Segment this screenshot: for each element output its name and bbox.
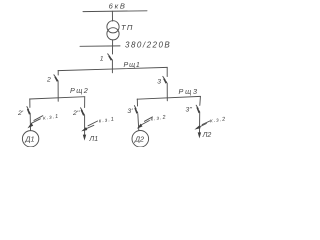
switch 2	[54, 75, 59, 82]
wire transformer to LV line and down to switch 1	[112, 40, 114, 54]
wire switch 2' to motor Д1	[29, 114, 31, 131]
wire switch 3'' to feeder arrow Л2	[199, 113, 201, 133]
short-circuit arrow к.з.2 at Л2 branch	[194, 121, 209, 130]
svg-text:3'': 3''	[186, 107, 193, 114]
svg-text:ТП: ТП	[121, 23, 134, 32]
label к.з.2	[150, 114, 167, 122]
svg-text:3: 3	[157, 78, 161, 85]
wire РЩ3 left end down to switch 3'	[136, 99, 138, 106]
label 2	[46, 77, 51, 84]
switch 1	[108, 54, 113, 61]
label 2''	[72, 110, 80, 117]
feeder Л1 outgoing arrow	[83, 135, 98, 143]
wire from 6kV bus to transformer	[111, 11, 113, 21]
label РЩ2	[70, 86, 89, 95]
svg-text:Д1: Д1	[24, 135, 34, 144]
bus РЩ1	[58, 67, 167, 70]
wire РЩ1 right end down to switch 3	[166, 67, 168, 76]
svg-text:2': 2'	[17, 110, 24, 117]
switch 3'	[134, 106, 138, 114]
motor Д2	[132, 131, 149, 148]
label 3'	[127, 108, 133, 115]
label РЩ3	[179, 87, 199, 96]
motor Д1	[22, 131, 38, 147]
short-circuit arrow к.з.1 at Д1 branch	[28, 116, 43, 129]
wire РЩ2 left end down to switch 2'	[29, 99, 31, 108]
svg-text:1: 1	[100, 56, 104, 63]
short-circuit arrow к.з.2 at Д2 branch	[137, 117, 153, 129]
wire switch 2 to РЩ2 bus (with overshoot)	[57, 81, 59, 101]
wire switch 3 to РЩ3 bus (with overshoot)	[166, 83, 168, 101]
wire switch 3' to motor Д2	[138, 114, 139, 131]
svg-text:380/220В: 380/220В	[125, 41, 171, 50]
transformer ТП	[107, 21, 119, 40]
label 1	[100, 56, 104, 63]
label к.з.2	[210, 116, 227, 124]
label 380/220В	[125, 41, 171, 50]
wire switch 1 to РЩ1 bus (with overshoot)	[111, 60, 113, 73]
svg-text:Рщ2: Рщ2	[70, 86, 89, 95]
switch 3	[163, 76, 168, 83]
svg-text:3': 3'	[127, 108, 133, 115]
svg-text:2'': 2''	[72, 110, 80, 117]
switch 2''	[81, 108, 85, 116]
switch 3''	[196, 105, 200, 113]
label к.з.1	[43, 114, 60, 122]
label 3	[157, 78, 161, 85]
svg-text:2: 2	[46, 77, 51, 84]
svg-text:Л2: Л2	[202, 132, 212, 139]
label 6кВ	[109, 2, 127, 11]
svg-text:Рщ1: Рщ1	[124, 62, 141, 69]
bus РЩ3	[137, 96, 200, 99]
wire РЩ1 left end down to switch 2	[57, 71, 59, 76]
svg-text:Рщ3: Рщ3	[179, 87, 199, 96]
switch 2'	[27, 107, 31, 115]
wire switch 2'' to feeder arrow Л1	[84, 115, 86, 135]
wire РЩ3 right end down to switch 3''	[199, 97, 202, 106]
svg-text:Д2: Д2	[134, 135, 144, 144]
wire РЩ2 right end down to switch 2''	[84, 97, 86, 108]
svg-text:6кВ: 6кВ	[109, 2, 127, 11]
bus 6kV	[83, 10, 147, 13]
short-circuit arrow к.з.1 at Л1 branch	[81, 121, 97, 131]
bus РЩ2	[30, 97, 85, 99]
label 2'	[17, 110, 24, 117]
LV terminal line 380/220V	[80, 45, 120, 47]
label 3''	[186, 107, 193, 114]
label РЩ1	[124, 62, 141, 69]
feeder Л2 outgoing arrow	[198, 132, 212, 139]
svg-text:Л1: Л1	[88, 136, 98, 143]
label к.з.1	[98, 116, 115, 124]
label ТП	[121, 23, 134, 32]
